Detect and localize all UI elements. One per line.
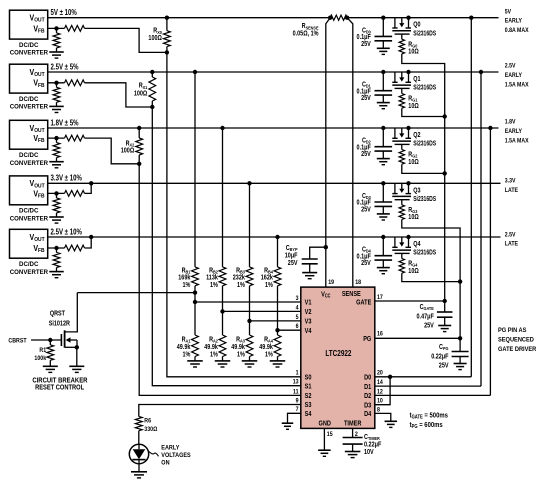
svg-text:10: 10 — [377, 398, 383, 405]
label pin V3 — [305, 318, 312, 326]
node CD2 tap — [381, 126, 385, 130]
wire S4 pin 7 to ground — [288, 413, 301, 423]
svg-text:D1: D1 — [364, 383, 372, 391]
transistor QRST Si1012R — [61, 293, 79, 366]
svg-text:S2: S2 — [305, 393, 312, 401]
label pin D3 — [364, 402, 372, 410]
label RA1 value — [177, 336, 191, 359]
resistor R6 330Ω — [135, 417, 142, 431]
label Q3 part number — [413, 195, 436, 203]
node FB2 — [54, 136, 58, 140]
net label 1.8V ± 5% — [51, 120, 80, 128]
wire CD4 to ground — [382, 260, 384, 267]
wire D0 pin 20 — [375, 375, 472, 379]
label CBRST — [8, 337, 26, 345]
label DC/DC CONVERTER 5 — [10, 261, 49, 276]
node CD0 tap — [381, 16, 385, 20]
pin number 16 — [377, 331, 383, 338]
svg-text:D4: D4 — [364, 411, 372, 419]
svg-text:100Ω: 100Ω — [148, 35, 161, 43]
label pin V1 — [305, 299, 312, 307]
pin number 20 — [377, 370, 383, 377]
svg-text:1%: 1% — [210, 282, 218, 290]
resistor FB divider lower (1.8V converter) — [53, 138, 60, 161]
label Q0 part number — [413, 30, 436, 38]
svg-text:ON: ON — [161, 460, 169, 466]
resistor RA3 — [246, 335, 253, 357]
label pin S1 — [305, 383, 312, 391]
svg-text:Si2316DS: Si2316DS — [413, 30, 436, 38]
transistor Q1 Si2316DS — [392, 70, 411, 89]
svg-text:25V: 25V — [361, 206, 371, 214]
wire RG4 to PG bus — [402, 273, 463, 284]
wire GATE bus — [402, 54, 445, 301]
capacitor CD1 0.1μF — [375, 91, 393, 95]
label pin TIMER — [344, 420, 362, 428]
label R1 value — [34, 346, 46, 362]
label pin D2 — [364, 393, 372, 401]
svg-text:0.22μF: 0.22μF — [431, 353, 448, 361]
svg-text:2.5V ± 5%: 2.5V ± 5% — [51, 64, 80, 72]
pin number 13 — [293, 379, 299, 386]
svg-text:Si2316DS: Si2316DS — [413, 140, 436, 148]
wire 1.8V EARLY rail — [48, 127, 499, 129]
wire RA4 to ground — [277, 357, 279, 361]
net label 2.5V ± 5% — [51, 64, 80, 72]
label pin GATE — [356, 299, 372, 307]
label RG2 value — [408, 151, 418, 166]
svg-text:1%: 1% — [210, 351, 218, 359]
svg-text:10Ω: 10Ω — [408, 158, 418, 166]
svg-text:RA1: RA1 — [182, 336, 191, 344]
svg-text:CONVERTER: CONVERTER — [10, 50, 49, 57]
svg-text:1.8V: 1.8V — [505, 119, 516, 126]
svg-text:25V: 25V — [361, 40, 371, 48]
wire to CPG — [459, 338, 461, 351]
resistor RG1 10Ω — [399, 88, 404, 108]
label Q1 part number — [413, 84, 436, 92]
svg-text:CONVERTER: CONVERTER — [10, 104, 49, 111]
LED indicator EARLY VOLTAGES ON — [129, 444, 148, 471]
ground FB divider (5V converter) — [49, 52, 64, 58]
svg-text:RX1: RX1 — [139, 82, 148, 90]
capacitor CD2 0.1μF — [375, 147, 393, 151]
node FB3 — [54, 191, 58, 195]
resistor RG3 10Ω — [399, 200, 404, 220]
node rail tap V4 — [275, 235, 279, 239]
label CTIMER value — [364, 433, 381, 456]
label R6 value — [144, 417, 157, 433]
pin number 15 — [327, 432, 333, 439]
svg-text:GATE DRIVER: GATE DRIVER — [498, 346, 537, 354]
svg-text:V1: V1 — [305, 299, 312, 307]
wire V2 node vertical — [222, 286, 224, 335]
wire rail to CD1 — [382, 72, 384, 91]
svg-text:D0: D0 — [364, 374, 372, 382]
label RX0 value — [148, 27, 162, 42]
ground FB divider (3.3V converter) — [49, 217, 64, 223]
svg-text:VOLTAGES: VOLTAGES — [161, 453, 190, 459]
DC/DC converter 3 block — [10, 120, 48, 149]
svg-text:1%: 1% — [237, 351, 245, 359]
label pin S3 — [305, 402, 312, 410]
label timing note — [410, 412, 449, 429]
pin number 9 — [296, 398, 300, 405]
wire V3 node vertical — [249, 286, 251, 335]
svg-text:15: 15 — [327, 432, 333, 439]
svg-text:25V: 25V — [361, 95, 371, 103]
wire TIMER pin 2 — [352, 428, 354, 437]
svg-text:DC/DC: DC/DC — [19, 152, 39, 159]
label RB4 value — [261, 267, 274, 290]
label RG4 value — [408, 260, 418, 275]
wire D2 pin 12 — [375, 394, 491, 396]
net label 2.5V ± 10% — [51, 229, 83, 237]
label RSENSE value — [293, 23, 319, 38]
label PG PIN AS SEQUENCED GATE DRIVER — [498, 326, 537, 353]
label pin D4 — [364, 411, 372, 419]
ground RA3 — [242, 361, 258, 367]
label DC/DC CONVERTER 2 — [10, 96, 49, 111]
wire D1 to 2.5V rail — [479, 70, 483, 386]
svg-text:Si2316DS: Si2316DS — [413, 195, 436, 203]
wire 3.3V LATE rail — [48, 182, 501, 184]
svg-text:25V: 25V — [288, 259, 298, 267]
svg-text:S0: S0 — [305, 374, 312, 382]
svg-text:TIMER: TIMER — [344, 420, 362, 428]
capacitor CD0 0.1μF — [375, 36, 393, 40]
wire RA2 to ground — [222, 357, 224, 361]
ground FB divider (2.5V(5%) converter) — [49, 106, 64, 112]
resistor RX2 100Ω — [136, 126, 143, 166]
svg-text:1%: 1% — [183, 351, 191, 359]
label Q1 — [413, 75, 421, 83]
svg-text:2.5V: 2.5V — [505, 232, 516, 239]
svg-text:Si2316DS: Si2316DS — [413, 84, 436, 92]
node V1 upper junction — [193, 290, 197, 294]
ground CD3 — [377, 214, 390, 220]
svg-text:Q0: Q0 — [413, 21, 421, 29]
wire RG2 to GATE bus — [402, 164, 447, 175]
transistor Q3 Si2316DS — [392, 181, 411, 200]
label CD0 value — [357, 27, 372, 48]
wire rail to RB4 — [277, 237, 279, 267]
svg-text:2.5V ± 10%: 2.5V ± 10% — [51, 229, 83, 237]
label CPG value — [431, 343, 449, 370]
wire CBRST to QRST gate — [31, 338, 61, 342]
svg-text:25V: 25V — [361, 260, 371, 268]
ground CGATE — [438, 326, 451, 332]
svg-text:10Ω: 10Ω — [408, 48, 418, 56]
svg-text:LATE: LATE — [505, 241, 518, 248]
label pin PG — [363, 335, 371, 343]
wire rail to CD3 — [382, 183, 384, 202]
pin number 14 — [377, 380, 383, 387]
svg-text:100Ω: 100Ω — [121, 147, 134, 155]
node VCC bypass tap — [324, 245, 328, 249]
svg-text:1%: 1% — [237, 282, 245, 290]
pin number 5 — [296, 314, 300, 321]
resistor FB series (2.5V(10%) converter) — [48, 245, 85, 251]
node FB4 — [54, 246, 58, 250]
svg-text:tPG = 600ms: tPG = 600ms — [410, 421, 443, 429]
pin number 12 — [377, 389, 383, 396]
label CGATE value — [417, 303, 435, 329]
svg-text:V2: V2 — [305, 309, 312, 317]
wire VCC sense line to pin 19 — [326, 18, 330, 287]
wire V4 node vertical — [277, 286, 279, 335]
svg-text:CONVERTER: CONVERTER — [10, 215, 49, 222]
wire FB4 to 2.5V rail — [85, 235, 94, 248]
wire D1 pin 14 — [375, 385, 481, 387]
resistor RB3 — [246, 267, 253, 286]
svg-text:11: 11 — [293, 389, 299, 396]
label pin VCC — [321, 291, 331, 299]
transistor Q2 Si2316DS — [392, 126, 411, 145]
wire 5V rail — [48, 17, 499, 19]
svg-text:Si2316DS: Si2316DS — [413, 249, 436, 257]
ground CTIMER — [345, 452, 361, 458]
svg-text:S3: S3 — [305, 402, 312, 410]
wire 2.5V EARLY rail — [48, 71, 499, 73]
ground CPG — [454, 364, 467, 370]
svg-text:Q3: Q3 — [413, 187, 421, 195]
label EARLY VOLTAGES ON — [161, 445, 190, 466]
wire CD0 to ground — [382, 41, 384, 48]
svg-text:Q1: Q1 — [413, 75, 421, 83]
svg-text:10Ω: 10Ω — [408, 102, 418, 110]
svg-text:VCC: VCC — [321, 291, 331, 299]
node FB0 — [54, 26, 58, 30]
wire to CGATE — [444, 301, 446, 312]
svg-text:5V: 5V — [505, 9, 511, 16]
wire V3 to pin — [250, 320, 301, 322]
DC/DC converter 5 block — [10, 229, 48, 258]
svg-text:12: 12 — [377, 389, 383, 396]
wire RA3 to ground — [249, 357, 251, 361]
resistor R1 100k — [47, 340, 54, 366]
wire 2.5V LATE rail — [48, 236, 501, 238]
svg-text:0.22μF: 0.22μF — [364, 441, 381, 449]
wire rail to CD2 — [382, 128, 384, 147]
label RB1 value — [178, 267, 191, 290]
svg-text:EARLY: EARLY — [161, 445, 179, 451]
capacitor CTIMER 0.22μF — [343, 438, 363, 445]
resistor RG2 10Ω — [399, 144, 404, 164]
wire RX2 node to S2 pin — [139, 164, 301, 396]
label CBYP value — [285, 244, 298, 267]
node CD3 tap — [381, 181, 385, 185]
svg-text:100Ω: 100Ω — [134, 90, 147, 98]
label RX1 value — [134, 82, 148, 98]
pin number 19 — [328, 280, 334, 287]
DC/DC converter 1 block — [10, 10, 48, 39]
wire V1 node to QRST drain — [77, 292, 195, 294]
svg-text:CTIMER: CTIMER — [364, 433, 381, 441]
svg-text:LATE: LATE — [505, 188, 518, 195]
label DC/DC CONVERTER 3 — [10, 152, 49, 167]
svg-text:EARLY: EARLY — [505, 129, 522, 136]
label RA4 value — [259, 336, 273, 359]
svg-text:0.47μF: 0.47μF — [417, 313, 434, 321]
svg-text:PG PIN AS: PG PIN AS — [498, 326, 526, 334]
node V4 — [275, 328, 279, 332]
transistor Q4 Si2316DS — [392, 235, 411, 254]
wire CGATE to ground — [444, 317, 446, 325]
label pin SENSE — [342, 291, 362, 299]
wire GND pin 15 — [323, 428, 325, 450]
wire RX0 node to S0 pin — [167, 52, 301, 376]
wire CTIMER to ground — [352, 444, 354, 451]
op-amp U1 LTC2922 sequencer IC — [301, 287, 375, 428]
svg-text:RA3: RA3 — [236, 336, 245, 344]
svg-text:25V: 25V — [439, 362, 449, 370]
label Q4 part number — [413, 249, 436, 257]
wire D0 to 5V rail — [469, 16, 473, 377]
wire PG pin 16 — [375, 336, 463, 340]
wire PG bus — [402, 220, 460, 339]
label CD4 value — [357, 246, 372, 267]
svg-text:18: 18 — [355, 280, 361, 287]
label pin V2 — [305, 309, 312, 317]
svg-text:Q2: Q2 — [413, 131, 421, 139]
wire V2 to pin — [223, 310, 301, 312]
DC/DC converter 2 block — [10, 64, 48, 93]
svg-text:SENSE: SENSE — [342, 291, 362, 299]
svg-text:5V ± 10%: 5V ± 10% — [51, 10, 78, 18]
svg-text:Q4: Q4 — [413, 240, 421, 248]
pin number 4 — [296, 305, 300, 312]
svg-text:25V: 25V — [361, 151, 371, 159]
label output 2.5V EARLY — [505, 63, 529, 88]
svg-text:1.5A MAX: 1.5A MAX — [505, 82, 529, 89]
svg-text:14: 14 — [377, 380, 383, 387]
label RB2 value — [206, 267, 218, 290]
ground D4 — [385, 421, 398, 427]
svg-text:10Ω: 10Ω — [408, 267, 418, 275]
label pin V4 — [305, 327, 312, 335]
pin number 17 — [377, 295, 383, 302]
ground RA4 — [270, 361, 286, 367]
resistor RX1 100Ω — [149, 70, 156, 109]
ground RA2 — [215, 361, 231, 367]
resistor FB divider lower (2.5V(10%) converter) — [53, 248, 60, 271]
node V2 — [220, 309, 224, 313]
svg-text:CGATE: CGATE — [420, 303, 434, 311]
label RG1 value — [408, 95, 418, 110]
ground S4 — [282, 423, 294, 429]
svg-text:SEQUENCED: SEQUENCED — [498, 336, 534, 344]
capacitor CD3 0.1μF — [375, 202, 393, 206]
ground QRST source — [69, 366, 84, 372]
capacitor CPG 0.22μF — [452, 352, 469, 357]
wire V4 to pin — [278, 329, 301, 331]
node FB1 — [54, 81, 58, 85]
svg-text:D3: D3 — [364, 402, 372, 410]
svg-text:10V: 10V — [364, 449, 374, 457]
label output 5V EARLY — [505, 9, 529, 34]
resistor RG4 10Ω — [399, 253, 404, 273]
resistor RSENSE 0.05Ω — [328, 15, 349, 20]
label RX2 value — [121, 140, 135, 155]
svg-text:V3: V3 — [305, 318, 312, 326]
svg-text:GND: GND — [318, 420, 331, 428]
transistor Q0 Si2316DS — [392, 16, 411, 35]
DC/DC converter 4 block — [10, 176, 48, 205]
ground FB divider (1.8V converter) — [49, 162, 64, 168]
resistor RA4 — [274, 335, 281, 357]
node CD4 tap — [381, 235, 385, 239]
svg-text:2.5V: 2.5V — [505, 63, 516, 70]
svg-text:1%: 1% — [183, 282, 191, 290]
label pin D1 — [364, 383, 372, 391]
wire RA1 to ground — [194, 357, 196, 361]
label DC/DC CONVERTER 4 — [10, 208, 49, 223]
svg-text:3.3V: 3.3V — [505, 178, 516, 185]
ground CD4 — [377, 268, 390, 274]
pin number 2 — [355, 431, 359, 438]
pin number 6 — [296, 324, 300, 331]
svg-text:17: 17 — [377, 295, 383, 302]
ground R1 — [43, 366, 58, 372]
ground LED — [131, 472, 147, 478]
wire FB1 to RX1 node — [85, 83, 153, 107]
svg-text:V4: V4 — [305, 327, 312, 335]
label RB3 value — [233, 267, 246, 290]
svg-text:QRST: QRST — [50, 310, 65, 318]
svg-text:CPG: CPG — [439, 343, 449, 351]
label CIRCUIT BREAKER RESET CONTROL — [32, 377, 87, 392]
svg-text:tGATE = 500ms: tGATE = 500ms — [410, 412, 449, 420]
wire RG1 to GATE bus — [402, 108, 447, 119]
svg-text:1.5A MAX: 1.5A MAX — [505, 138, 529, 145]
label RA2 value — [204, 336, 218, 359]
svg-text:DC/DC: DC/DC — [19, 261, 39, 268]
svg-text:20: 20 — [377, 370, 383, 377]
wire SENSE line to pin 18 — [347, 18, 353, 287]
label Q2 — [413, 131, 421, 139]
wire FB0 to RX0 node — [85, 28, 167, 52]
wire rail to CD4 — [382, 237, 384, 256]
net label 3.3V ± 10% — [51, 175, 83, 183]
resistor FB divider lower (2.5V(5%) converter) — [53, 83, 60, 106]
label output 3.3V LATE — [505, 178, 518, 194]
resistor RX0 100Ω — [164, 16, 171, 55]
pin number 3 — [296, 295, 300, 302]
ground CD1 — [377, 103, 390, 109]
node V1 — [193, 300, 197, 304]
svg-text:PG: PG — [363, 335, 371, 343]
label Q0 — [413, 21, 421, 29]
svg-text:CBRST: CBRST — [8, 337, 26, 345]
wire GATE pin 17 — [375, 299, 447, 303]
svg-text:DC/DC: DC/DC — [19, 208, 39, 215]
ground CBYP — [302, 273, 317, 279]
svg-text:CONVERTER: CONVERTER — [10, 160, 49, 167]
pin number 18 — [355, 280, 361, 287]
svg-text:Si1012R: Si1012R — [49, 320, 71, 328]
wire CBYP to ground — [309, 264, 311, 273]
wire rail to CD0 — [382, 18, 384, 37]
svg-text:GATE: GATE — [356, 299, 372, 307]
svg-text:R6: R6 — [144, 417, 151, 425]
pin number 7 — [296, 407, 300, 414]
svg-text:S1: S1 — [305, 383, 312, 391]
svg-text:19: 19 — [328, 280, 334, 287]
svg-text:CONVERTER: CONVERTER — [10, 269, 49, 276]
resistor FB divider lower (5V converter) — [53, 28, 60, 51]
pin number 1 — [296, 370, 300, 377]
